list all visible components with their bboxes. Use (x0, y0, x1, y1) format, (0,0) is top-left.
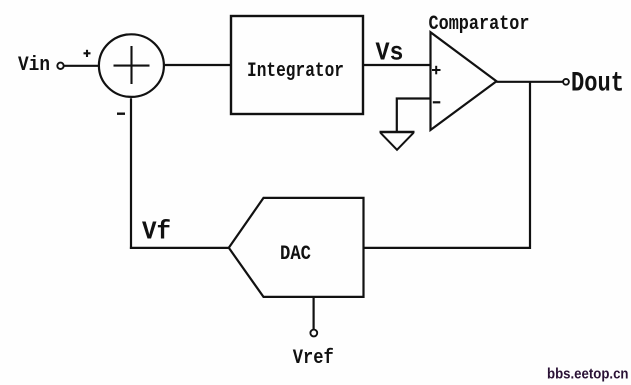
wire summer to feedback corner (left vertical) (130, 98, 132, 249)
svg-text:Integrator: Integrator (247, 60, 344, 83)
minus polarity sign at summer feedback input (117, 112, 125, 114)
wire comparator output to Dout (497, 81, 564, 83)
pin - label (comparator inverting) (433, 101, 441, 103)
wire summer to integrator (165, 64, 230, 66)
svg-text:Vf: Vf (142, 217, 171, 247)
integrator U1 box (231, 16, 363, 114)
wire feedback vertical (output to DAC) (529, 82, 531, 249)
ground (380, 132, 415, 150)
svg-text:Vs: Vs (376, 38, 404, 68)
svg-text:DAC: DAC (280, 243, 311, 266)
svg-text:Vin: Vin (18, 54, 50, 77)
svg-text:bbs.eetop.cn: bbs.eetop.cn (547, 366, 629, 382)
summing junction cross (114, 46, 150, 84)
wire integrator to comparator (364, 64, 431, 66)
terminal Dout (563, 79, 569, 85)
svg-text:Comparator: Comparator (429, 13, 530, 36)
comparator U2 triangle (431, 32, 497, 130)
DAC U3 shape (229, 198, 364, 297)
summing junction S1 (99, 34, 164, 97)
wire Vin to summer (64, 65, 98, 67)
wire DAC bottom stub to Vref terminal (313, 297, 315, 330)
wire feedback bottom horizontal to DAC input (130, 247, 230, 249)
svg-text:Dout: Dout (571, 69, 624, 100)
wire DAC output horizontal (364, 247, 531, 249)
wire inverting input to ground (397, 99, 431, 132)
pin + label (comparator noninverting) (432, 66, 441, 75)
plus polarity sign at summer input (84, 50, 91, 57)
terminal Vin (57, 63, 63, 69)
svg-text:Vref: Vref (293, 347, 334, 370)
terminal Vref (310, 330, 317, 337)
